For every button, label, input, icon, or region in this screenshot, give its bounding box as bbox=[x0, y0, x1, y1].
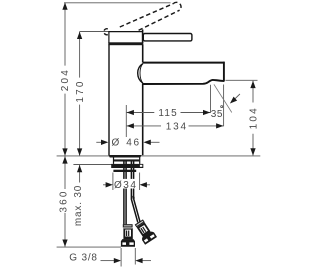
dimension line 170 bbox=[77, 32, 82, 156]
dimension 115 bbox=[127, 110, 211, 115]
spout bottom extension line right bbox=[226, 79, 258, 81]
svg-text:46: 46 bbox=[126, 137, 141, 148]
faucet body right edge upper bbox=[142, 45, 144, 63]
counter underside line bbox=[73, 164, 113, 166]
spout right end edge bbox=[223, 62, 225, 81]
svg-text:Ø: Ø bbox=[112, 137, 121, 148]
G 3/8 right leader arrow bbox=[135, 258, 151, 263]
right hose connector (rotated) bbox=[133, 218, 157, 245]
faucet body left edge bbox=[108, 45, 110, 156]
right hose elbow shade bbox=[132, 195, 135, 200]
left hose connector body bbox=[123, 228, 132, 240]
dimension line 360 bbox=[62, 156, 67, 247]
dimension Ø46 leaders bbox=[96, 140, 159, 145]
dimension max. 30 bbox=[77, 165, 82, 183]
bottom reference line bbox=[57, 246, 121, 248]
170 extension line bbox=[80, 31, 109, 33]
svg-text:max. 30: max. 30 bbox=[73, 185, 84, 226]
svg-text:115: 115 bbox=[158, 108, 178, 119]
faucet base bottom edge bbox=[108, 155, 141, 158]
spout bottom edge with aerator dip bbox=[143, 80, 224, 84]
shank band C bbox=[113, 170, 136, 172]
svg-text:G 3/8: G 3/8 bbox=[69, 252, 97, 263]
label Ø34 bbox=[114, 179, 136, 189]
aerator extension line bbox=[210, 85, 212, 113]
raised handle dashed upper line bbox=[120, 4, 174, 27]
jet direction arrow bbox=[230, 94, 240, 104]
left supply hose (outlined tube) bbox=[123, 161, 125, 224]
left hose crimp bbox=[123, 224, 133, 227]
204 top extension line bbox=[64, 2, 171, 4]
shank upper sides bbox=[113, 157, 115, 164]
svg-text:360: 360 bbox=[58, 189, 69, 212]
jet angle line bbox=[214, 84, 232, 112]
right crimp bbox=[135, 219, 145, 227]
G 3/8 extension lines bbox=[120, 248, 122, 267]
shank band A bbox=[114, 159, 139, 161]
mounting flange bbox=[111, 164, 143, 168]
svg-text:204: 204 bbox=[60, 68, 71, 91]
right supply hose (vertical + bend + diagonal, outlined tube) bbox=[134, 161, 140, 221]
svg-text:134: 134 bbox=[166, 121, 188, 132]
dimension 134 bbox=[127, 123, 224, 128]
spout top edge bbox=[143, 62, 225, 64]
left hose nut bbox=[121, 239, 135, 247]
right nut bbox=[141, 231, 157, 245]
spout end extension line bbox=[223, 85, 225, 127]
svg-text:Ø34: Ø34 bbox=[114, 180, 137, 191]
svg-text:104: 104 bbox=[248, 106, 259, 129]
body-spout junction crescent bbox=[138, 64, 143, 84]
raised handle dashed lower line bbox=[139, 10, 180, 30]
raised handle dashed tip bbox=[173, 2, 181, 10]
handle lever bbox=[143, 34, 192, 41]
counter/base line bbox=[57, 155, 261, 157]
right connector body bbox=[137, 222, 151, 237]
svg-text:35: 35 bbox=[211, 109, 223, 120]
faucet body right edge lower bbox=[142, 84, 144, 156]
dimension line 204 bbox=[62, 3, 67, 156]
faucet centerline extension bbox=[125, 105, 127, 137]
handle cap bbox=[108, 30, 143, 46]
G 3/8 leader left arrow bbox=[101, 258, 122, 263]
dimension line 104 bbox=[250, 81, 255, 156]
dimension Ø34 bbox=[103, 173, 150, 191]
svg-text:170: 170 bbox=[75, 79, 86, 102]
raised handle dashed pivot curl bbox=[104, 29, 108, 35]
